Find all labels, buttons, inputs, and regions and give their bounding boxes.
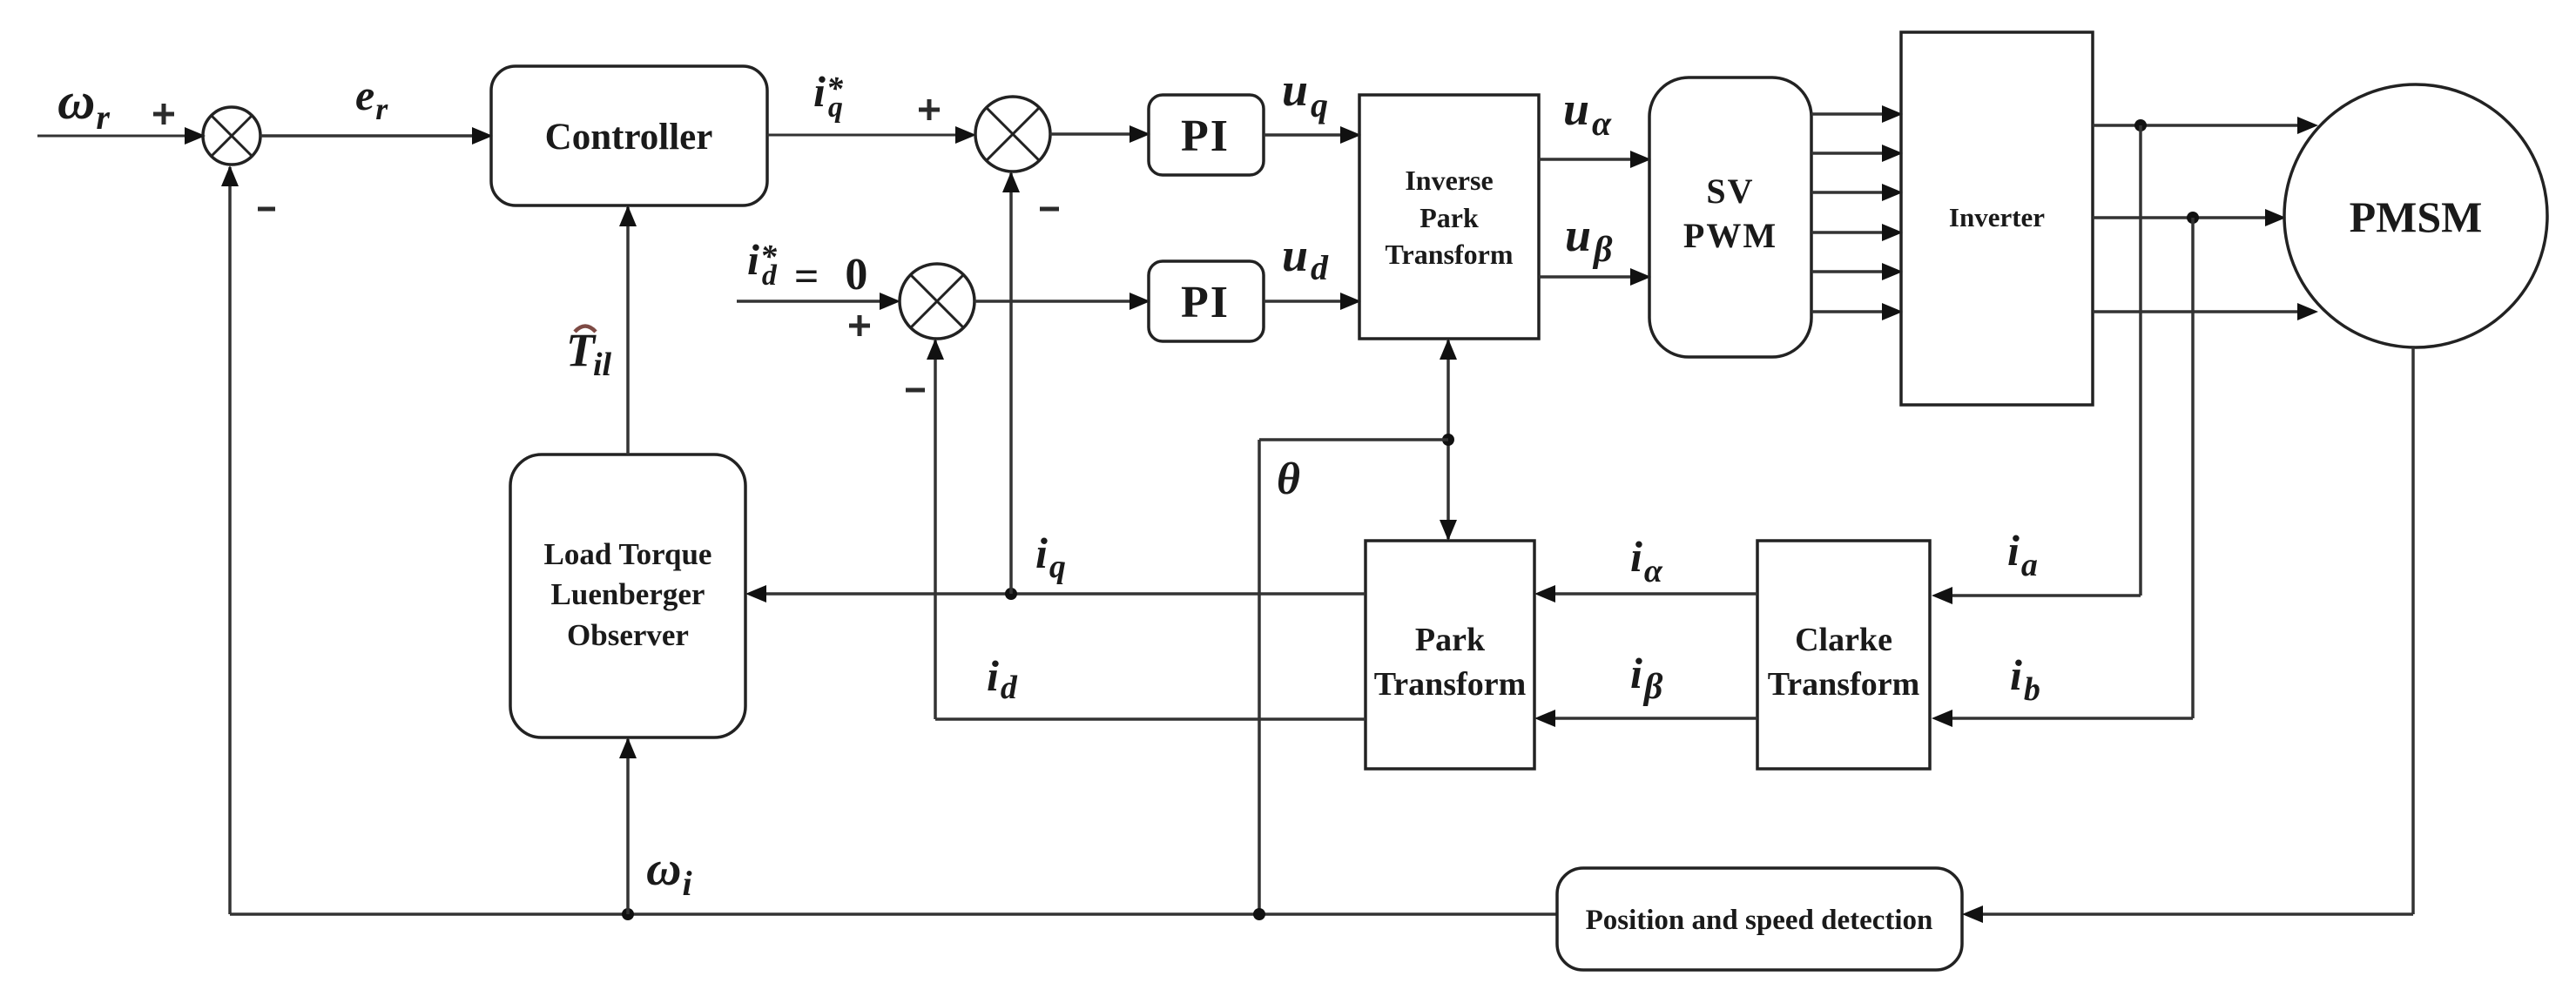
wire i_alpha: Clarke to Park [1534,585,1757,603]
wire PWM line 1 to Inverter [1811,105,1903,123]
summing junction S2 [975,97,1050,172]
svg-text:Transform: Transform [1374,666,1527,703]
svg-text:Transform: Transform [1386,239,1514,270]
svg-text:PWM: PWM [1683,216,1777,255]
svg-text:Clarke: Clarke [1795,622,1892,658]
wire S1 to Controller, node e_r [260,127,493,145]
wire PWM line 5 to Inverter [1811,263,1903,280]
wire PWM line 6 to Inverter [1811,303,1903,320]
wire theta vertical between transforms [1440,339,1457,541]
node i_alpha label [1630,532,1663,589]
minus sign below S1 [258,207,275,212]
node u_q label [1282,64,1328,125]
wire i_q rise to S2 [1002,172,1020,594]
minus sign right-below S2 [1040,207,1059,212]
svg-text:Inverter: Inverter [1949,202,2045,232]
wire PI2 to Inverse Park, node u_d [1264,293,1361,310]
plus sign at S3 [849,315,870,336]
block Park Transform [1366,541,1534,769]
wire PMSM to Position detection [1962,347,2413,923]
node theta label [1277,454,1300,504]
wire i_a: drop from phase a to Clarke [1932,125,2141,604]
wire omega_i rise to Observer [619,737,637,914]
wire Inverter phase a to PMSM [2093,117,2318,134]
junction dot theta at bottom [1253,908,1265,920]
junction dot theta [1442,434,1454,446]
node i_beta label [1630,649,1663,707]
wire PWM line 2 to Inverter [1811,145,1903,162]
wire T_il: Observer to Controller [619,205,637,454]
svg-text:PI: PI [1181,111,1230,161]
svg-text:PI: PI [1181,278,1230,327]
node i_d label [987,651,1018,706]
wire left feedback rise to S1 [221,165,239,914]
node i_q* label [813,67,844,124]
wire omega_r to summing junction S1 [37,127,206,145]
motor PMSM [2284,84,2547,347]
node omega_i label [646,842,692,903]
svg-text:PMSM: PMSM [2350,192,2483,241]
block Position and speed detection [1557,868,1962,970]
junction dot i_q [1005,588,1017,600]
wire i_b: drop from phase b to Clarke [1932,218,2193,727]
svg-text:θ: θ [1277,454,1300,504]
svg-text:Park: Park [1415,622,1486,658]
svg-text:Observer: Observer [567,618,689,652]
wire PWM line 3 to Inverter [1811,184,1903,201]
svg-text:Inverse: Inverse [1405,165,1493,196]
svg-text:Load Torque: Load Torque [544,537,712,571]
wire i_beta: Clarke to Park [1534,710,1757,727]
wire u_beta: Inverse Park to SVPWM [1539,268,1651,286]
svg-text:Position and speed detection: Position and speed detection [1586,905,1933,936]
block Controller [491,66,767,205]
block SV PWM [1649,77,1811,357]
svg-text:Park: Park [1419,202,1479,233]
block PI2 [1149,261,1264,341]
wire Inverter phase c to PMSM [2093,303,2318,320]
wire S3 to PI2 [974,293,1150,310]
summing junction S3 [900,264,974,339]
svg-text:Transform: Transform [1768,666,1920,703]
svg-text:i*q: i*q [813,67,844,124]
summing junction S1 [203,107,260,165]
block Inverter [1901,32,2093,405]
block Load Torque Luenberger Observer [510,454,745,737]
wire Controller to summing junction S2 [767,126,976,144]
wire i_d* to summing junction S3 [737,293,900,310]
node i_b label [2010,650,2040,708]
node i_d* = 0 label [747,235,867,300]
wire PI1 to Inverse Park, node u_q [1264,126,1361,144]
node e_r label [355,71,388,126]
svg-text:SV: SV [1706,172,1754,211]
node u_alpha label [1563,83,1612,143]
node u_d label [1282,229,1329,287]
wire S2 to PI1 [1050,125,1150,143]
wire i_q feedback: Park to Observer [745,585,1366,603]
bottom feedback line [230,912,1557,916]
svg-text:Luenberger: Luenberger [551,577,705,611]
node u_beta label [1565,209,1613,270]
block Inverse Park Transform [1359,95,1539,339]
plus sign at S1 [153,104,174,125]
wire i_d feedback: Park to S3 [927,339,1366,719]
wire theta branch to bottom feedback [1259,440,1448,914]
svg-text:Controller: Controller [545,117,713,158]
block Clarke Transform [1757,541,1930,769]
wire PWM line 4 to Inverter [1811,224,1903,241]
junction dot phase a [2134,119,2147,131]
junction dot phase b [2187,212,2199,224]
junction dot omega_i at bottom [622,908,634,920]
block PI1 [1149,95,1264,175]
node T_il label with red hat [566,324,612,383]
node i_a label [2007,526,2038,583]
minus sign below S3 [906,388,925,393]
node i_q label [1035,529,1066,585]
wire Inverter phase b to PMSM [2093,209,2286,226]
wire u_alpha: Inverse Park to SVPWM [1539,151,1651,168]
plus sign at S2 [919,99,940,120]
node omega_r input label [57,72,110,137]
